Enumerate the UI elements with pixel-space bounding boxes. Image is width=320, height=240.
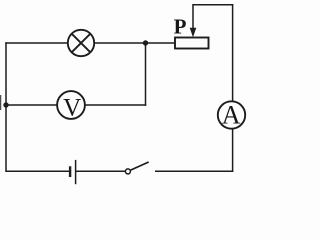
node junction dot top bbox=[143, 40, 148, 45]
wire junction down to voltmeter branch bbox=[145, 43, 147, 106]
svg-text:A: A bbox=[222, 101, 241, 130]
lamp L1 bbox=[68, 30, 94, 56]
voltmeter U-V bbox=[57, 91, 85, 119]
wire top-left horizontal to lamp bbox=[5, 42, 68, 44]
switch S1 pivot circle bbox=[125, 169, 130, 174]
switch S1 lever bbox=[130, 162, 149, 170]
potentiometer P wiper arrow bbox=[192, 5, 194, 29]
wire right vertical lower from ammeter bbox=[232, 129, 234, 172]
wire switch to battery bbox=[76, 170, 126, 172]
wire top to right corner bbox=[192, 4, 233, 6]
battery B1 short plate bbox=[69, 166, 71, 177]
ammeter U-A bbox=[218, 101, 245, 128]
wire battery to left corner bbox=[5, 170, 70, 172]
wire bottom right to switch bbox=[155, 170, 233, 172]
svg-text:P: P bbox=[174, 15, 187, 39]
wire voltmeter branch right bbox=[85, 104, 146, 106]
wire lamp to potentiometer bbox=[94, 42, 175, 44]
node junction dot left bbox=[3, 102, 8, 107]
potentiometer P body bbox=[175, 38, 209, 49]
wire left vertical bbox=[5, 42, 7, 171]
svg-text:V: V bbox=[63, 94, 81, 121]
scan artifact left edge bbox=[0, 95, 2, 110]
battery B1 long plate bbox=[75, 160, 77, 184]
wire right vertical upper to ammeter bbox=[232, 4, 234, 102]
wire voltmeter branch left bbox=[6, 104, 57, 106]
